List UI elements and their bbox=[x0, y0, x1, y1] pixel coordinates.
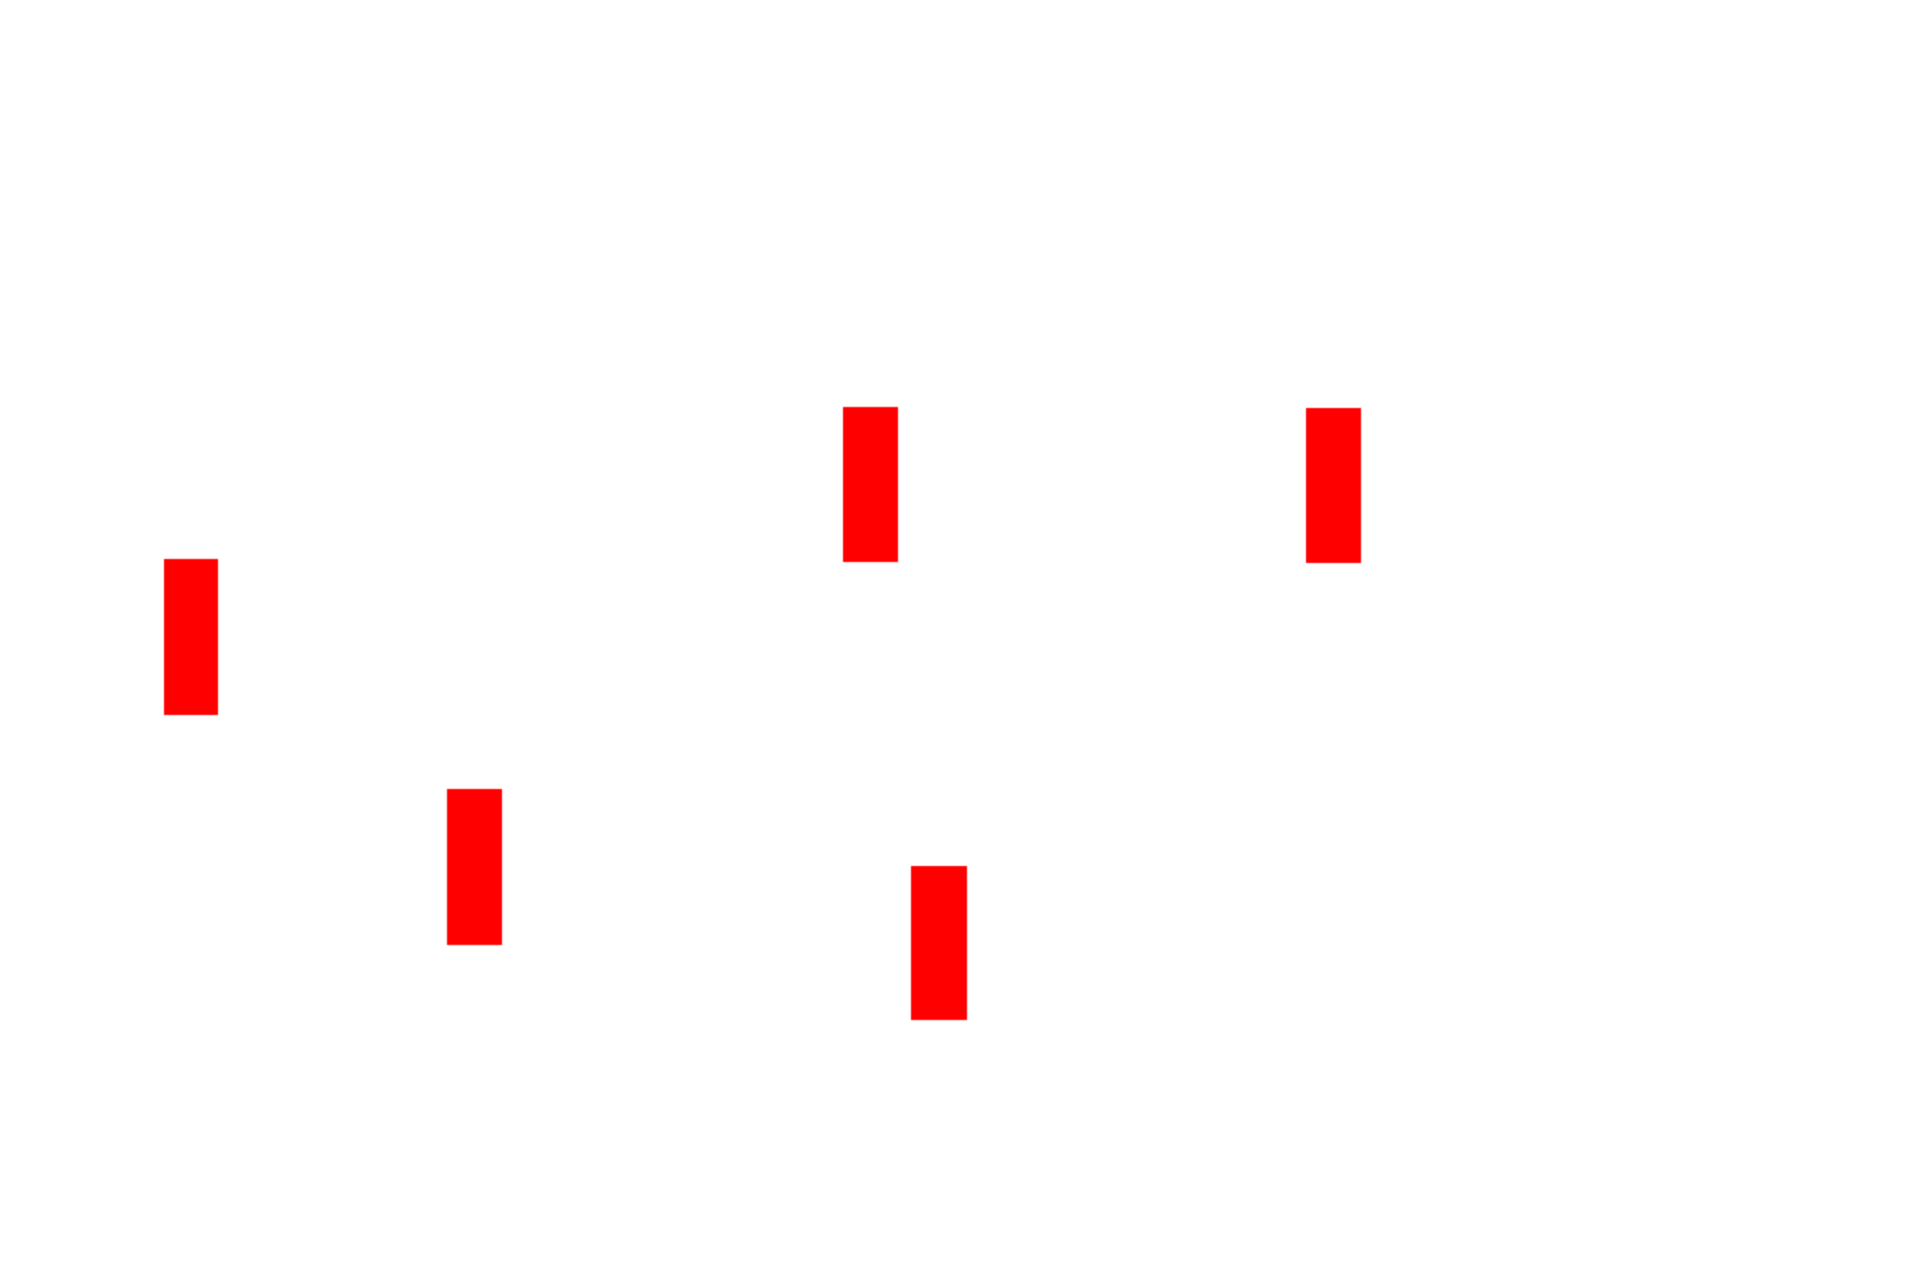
red bar 2 (upper middle) bbox=[843, 407, 898, 562]
red bar 1 (left) bbox=[164, 559, 218, 715]
red bar 3 (upper right) bbox=[1306, 408, 1361, 563]
red bar 5 (lower middle) bbox=[911, 866, 967, 1020]
red bar 4 (lower left) bbox=[447, 789, 502, 945]
